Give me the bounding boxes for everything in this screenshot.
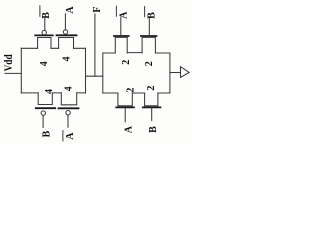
transistor M8 gate bar: [143, 106, 161, 108]
transistor M6 channel bump: [142, 37, 155, 53]
transistor M5 gate bar: [114, 35, 129, 37]
transistor M8 channel bump: [145, 93, 158, 106]
lead M2 gate: [64, 14, 66, 30]
transistor M1 channel bump: [38, 38, 51, 49]
svg-text:B: B: [41, 12, 52, 19]
svg-text:B: B: [148, 126, 159, 133]
svg-text:A: A: [119, 11, 130, 19]
bubble M2: [63, 30, 67, 34]
output lead wire: [170, 72, 181, 74]
node F bridge wire: [86, 75, 103, 77]
lead M4 gate: [67, 115, 69, 127]
svg-text:2: 2: [121, 60, 132, 65]
stage1 top edge segments: [21, 47, 85, 49]
stage2 bottom edge segments: [103, 92, 170, 94]
svg-text:B: B: [147, 12, 158, 19]
svg-text:4: 4: [64, 86, 75, 91]
lead M7 gate: [124, 108, 126, 122]
svg-text:B: B: [42, 130, 53, 137]
stage2 top edge segments: [103, 52, 170, 54]
transistor M4 gate bar: [59, 107, 79, 109]
lead M8 gate: [151, 108, 153, 120]
F lead wire: [94, 14, 96, 76]
transistor M1 gate bar: [35, 34, 53, 36]
stage2 right edge: [169, 53, 171, 93]
svg-text:A: A: [123, 125, 134, 133]
overbar of A-bar label (stage2 top): [115, 6, 117, 16]
transistor M2 channel bump: [59, 38, 74, 49]
Vdd lead wire: [5, 72, 21, 74]
overbar of B-bar label (stage2 top): [144, 7, 146, 17]
lead M6 gate: [148, 17, 150, 35]
svg-text:2: 2: [144, 61, 155, 66]
transistor M7 channel bump: [118, 93, 132, 106]
overbar of A-bar label (bottom mid): [62, 131, 64, 141]
transistor M4 channel bump: [61, 93, 76, 105]
stage1 right edge: [85, 48, 87, 93]
transistor M3 channel bump: [38, 93, 52, 105]
svg-text:2: 2: [126, 88, 137, 93]
transistor M6 gate bar: [141, 35, 157, 37]
svg-text:4: 4: [44, 89, 55, 94]
transistor M3 gate bar: [36, 107, 55, 109]
lead M5 gate: [120, 18, 122, 36]
output arrowhead: [181, 67, 190, 78]
lead M3 gate: [42, 116, 44, 128]
svg-text:A: A: [65, 132, 76, 140]
transistor M7 gate bar: [116, 106, 134, 108]
svg-text:A: A: [65, 6, 76, 14]
stage2 gate outline: left edge: [102, 53, 104, 93]
svg-text:4: 4: [39, 61, 50, 66]
transistor M2 gate bar: [57, 34, 77, 36]
overbar of B-bar label (top left): [39, 6, 41, 17]
bubble M4: [66, 111, 70, 115]
stage1 bottom edge segments: [21, 92, 85, 94]
lead M1 gate: [44, 19, 46, 31]
svg-text:Vdd: Vdd: [1, 54, 15, 71]
svg-text:4: 4: [61, 57, 72, 62]
transistor M5 channel bump: [115, 37, 127, 53]
svg-text:2: 2: [146, 86, 157, 91]
stage1 gate outline: left edge: [20, 48, 22, 93]
svg-text:F: F: [92, 6, 103, 12]
bubble M3: [41, 111, 45, 115]
bubble M1: [42, 30, 46, 34]
